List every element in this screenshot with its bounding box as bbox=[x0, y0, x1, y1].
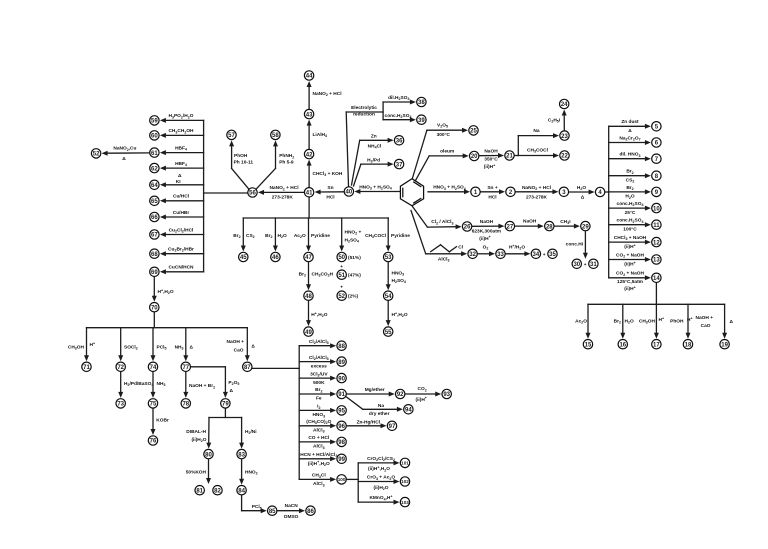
svg-text:CH3COCl: CH3COCl bbox=[365, 233, 386, 239]
svg-text:Fe: Fe bbox=[316, 396, 322, 402]
svg-text:69: 69 bbox=[151, 270, 158, 276]
svg-text:NaNO2 + HCl: NaNO2 + HCl bbox=[522, 185, 551, 191]
svg-text:H2SO4: H2SO4 bbox=[345, 238, 359, 244]
svg-text:CO2 + NaOH: CO2 + NaOH bbox=[616, 271, 645, 277]
svg-text:+: + bbox=[584, 263, 587, 268]
svg-text:CrO3 + Ac2O: CrO3 + Ac2O bbox=[367, 475, 395, 481]
svg-text:DMSO: DMSO bbox=[284, 514, 299, 520]
svg-text:81: 81 bbox=[196, 488, 203, 494]
svg-text:Ph 10-11: Ph 10-11 bbox=[234, 160, 254, 166]
svg-text:87: 87 bbox=[244, 365, 251, 371]
svg-text:C2H5I: C2H5I bbox=[548, 118, 561, 124]
svg-text:20: 20 bbox=[471, 154, 478, 160]
svg-text:35: 35 bbox=[549, 252, 556, 258]
svg-text:H2O: H2O bbox=[577, 185, 586, 191]
svg-text:KMnO4,H+: KMnO4,H+ bbox=[369, 495, 392, 502]
svg-text:52: 52 bbox=[338, 294, 345, 300]
svg-text:300°C: 300°C bbox=[437, 132, 451, 138]
svg-text:23: 23 bbox=[561, 134, 568, 140]
svg-text:47: 47 bbox=[305, 255, 312, 261]
svg-text:500K: 500K bbox=[313, 380, 325, 386]
svg-text:45: 45 bbox=[240, 255, 247, 261]
svg-text:85: 85 bbox=[269, 509, 276, 515]
svg-text:94: 94 bbox=[405, 408, 412, 414]
svg-text:CrO2Cl2/CS2: CrO2Cl2/CS2 bbox=[367, 456, 395, 462]
svg-text:34: 34 bbox=[533, 252, 540, 258]
svg-text:125°C,5atm: 125°C,5atm bbox=[617, 279, 643, 285]
svg-text:95: 95 bbox=[338, 409, 345, 415]
svg-text:(CH3CO)2O: (CH3CO)2O bbox=[306, 419, 331, 425]
svg-text:Cl: Cl bbox=[458, 244, 463, 250]
svg-text:70: 70 bbox=[151, 305, 158, 311]
svg-text:Na2Cr2O7: Na2Cr2O7 bbox=[619, 135, 640, 141]
svg-text:97: 97 bbox=[389, 424, 396, 430]
svg-text:14: 14 bbox=[653, 276, 660, 282]
svg-text:37: 37 bbox=[396, 162, 403, 168]
svg-text:27: 27 bbox=[507, 224, 514, 230]
svg-text:conc.H2SO4: conc.H2SO4 bbox=[617, 218, 644, 224]
svg-text:Zn dust: Zn dust bbox=[621, 119, 639, 125]
svg-text:NaNO2 + HCl: NaNO2 + HCl bbox=[269, 185, 298, 191]
svg-text:38: 38 bbox=[418, 100, 425, 106]
svg-text:89: 89 bbox=[338, 360, 345, 366]
svg-text:Na: Na bbox=[533, 128, 539, 134]
svg-text:KI: KI bbox=[176, 179, 181, 185]
svg-text:21: 21 bbox=[506, 154, 513, 160]
svg-text:44: 44 bbox=[306, 74, 313, 80]
svg-text:19: 19 bbox=[721, 342, 728, 348]
svg-text:61: 61 bbox=[151, 151, 158, 157]
svg-text:HNO3 + H2SO4: HNO3 + H2SO4 bbox=[359, 185, 392, 191]
svg-text:60: 60 bbox=[151, 134, 158, 140]
svg-text:71: 71 bbox=[83, 365, 90, 371]
svg-text:CO + HCl: CO + HCl bbox=[308, 435, 329, 441]
svg-text:103: 103 bbox=[401, 500, 409, 505]
svg-text:Δ: Δ bbox=[178, 173, 182, 179]
svg-text:273-278K: 273-278K bbox=[272, 194, 294, 200]
svg-text:50: 50 bbox=[338, 255, 345, 261]
svg-text:(2%): (2%) bbox=[348, 294, 359, 300]
svg-text:65: 65 bbox=[151, 199, 158, 205]
svg-text:DIBAL-H: DIBAL-H bbox=[186, 429, 206, 435]
svg-text:16: 16 bbox=[619, 342, 626, 348]
svg-text:92: 92 bbox=[397, 392, 404, 398]
svg-text:3Cl2/UV: 3Cl2/UV bbox=[310, 371, 328, 377]
svg-text:Cl2/AlCl3: Cl2/AlCl3 bbox=[309, 339, 329, 345]
svg-text:excess: excess bbox=[311, 364, 327, 369]
svg-text:CHCl3 + NaOH: CHCl3 + NaOH bbox=[614, 235, 647, 241]
svg-text:NaNO2 + HCl: NaNO2 + HCl bbox=[313, 91, 342, 97]
svg-text:H2/Ni: H2/Ni bbox=[245, 429, 257, 435]
svg-text:CaO: CaO bbox=[701, 323, 711, 329]
svg-text:H2O: H2O bbox=[278, 233, 287, 239]
svg-text:80: 80 bbox=[205, 452, 212, 458]
svg-text:41: 41 bbox=[306, 191, 313, 197]
svg-text:Ac2O: Ac2O bbox=[575, 319, 587, 325]
svg-text:HNO3 + H2SO4: HNO3 + H2SO4 bbox=[433, 185, 466, 191]
svg-text:NaOH + Br2: NaOH + Br2 bbox=[189, 383, 215, 389]
svg-text:51: 51 bbox=[338, 273, 345, 279]
svg-text:Pyridine: Pyridine bbox=[311, 233, 330, 239]
svg-text:90: 90 bbox=[338, 376, 345, 382]
svg-text:(51%): (51%) bbox=[348, 255, 361, 261]
svg-text:conc.H2SO4: conc.H2SO4 bbox=[617, 201, 644, 207]
svg-text:48: 48 bbox=[305, 294, 312, 300]
svg-text:93: 93 bbox=[443, 392, 450, 398]
svg-text:H+,H2O: H+,H2O bbox=[158, 288, 174, 295]
svg-text:13: 13 bbox=[653, 258, 660, 264]
svg-text:91: 91 bbox=[338, 392, 345, 398]
svg-text:CH3CO2H: CH3CO2H bbox=[312, 272, 334, 278]
svg-text:31: 31 bbox=[590, 262, 597, 268]
svg-text:H2O: H2O bbox=[625, 319, 634, 325]
svg-text:62: 62 bbox=[151, 166, 158, 172]
svg-text:79: 79 bbox=[222, 402, 229, 408]
svg-text:12: 12 bbox=[653, 240, 660, 246]
svg-text:H+,H2O: H+,H2O bbox=[311, 311, 327, 318]
svg-text:KOBr: KOBr bbox=[156, 417, 169, 423]
svg-text:83: 83 bbox=[238, 452, 245, 458]
svg-text:SOCl2: SOCl2 bbox=[124, 345, 138, 351]
svg-text:25°C: 25°C bbox=[625, 210, 636, 216]
svg-text:+: + bbox=[543, 253, 546, 258]
svg-text:Electrolytic: Electrolytic bbox=[351, 105, 377, 111]
svg-text:76: 76 bbox=[150, 439, 157, 445]
svg-text:28: 28 bbox=[546, 224, 553, 230]
svg-text:74: 74 bbox=[150, 365, 157, 371]
svg-text:H2/Pd: H2/Pd bbox=[367, 157, 380, 163]
svg-text:(ii)H+,H2O: (ii)H+,H2O bbox=[368, 465, 390, 472]
svg-text:CH3OH: CH3OH bbox=[639, 319, 656, 325]
svg-text:33: 33 bbox=[497, 252, 504, 258]
svg-text:+: + bbox=[340, 285, 343, 290]
svg-text:conc.H2SO4: conc.H2SO4 bbox=[385, 113, 412, 119]
svg-text:dry ether: dry ether bbox=[369, 411, 390, 417]
svg-text:36: 36 bbox=[396, 139, 403, 145]
svg-text:78: 78 bbox=[182, 402, 189, 408]
svg-text:56: 56 bbox=[249, 191, 256, 197]
svg-text:73: 73 bbox=[117, 402, 124, 408]
svg-text:H2O: H2O bbox=[625, 194, 634, 200]
svg-text:82: 82 bbox=[214, 488, 221, 494]
svg-text:99: 99 bbox=[338, 457, 345, 463]
svg-text:623K,300atm: 623K,300atm bbox=[472, 228, 501, 234]
svg-text:NaOH: NaOH bbox=[523, 219, 537, 225]
svg-text:273-278K: 273-278K bbox=[526, 194, 548, 200]
svg-text:NH4Cl: NH4Cl bbox=[368, 143, 382, 149]
svg-text:NaCN: NaCN bbox=[285, 503, 299, 509]
svg-text:98: 98 bbox=[338, 440, 345, 446]
svg-text:NaNO2,Cu: NaNO2,Cu bbox=[113, 146, 136, 152]
svg-text:Δ: Δ bbox=[628, 128, 632, 134]
svg-text:72: 72 bbox=[117, 365, 124, 371]
svg-text:conc.HI: conc.HI bbox=[566, 241, 584, 247]
svg-text:58: 58 bbox=[272, 133, 279, 139]
svg-text:66: 66 bbox=[151, 215, 158, 221]
svg-text:10: 10 bbox=[653, 206, 660, 212]
svg-text:HNO2 +: HNO2 + bbox=[345, 230, 362, 236]
svg-text:+: + bbox=[340, 265, 343, 270]
svg-text:75: 75 bbox=[150, 402, 157, 408]
svg-text:100: 100 bbox=[338, 477, 346, 482]
svg-text:CH3Cl: CH3Cl bbox=[312, 473, 326, 479]
svg-text:(47%): (47%) bbox=[348, 273, 361, 279]
svg-text:32: 32 bbox=[469, 252, 476, 258]
svg-text:59: 59 bbox=[151, 119, 158, 125]
svg-text:Cl2 / AlCl3: Cl2 / AlCl3 bbox=[431, 219, 453, 225]
svg-text:(ii)H+,H2O: (ii)H+,H2O bbox=[308, 460, 330, 467]
svg-text:NaOH +: NaOH + bbox=[227, 339, 245, 345]
svg-text:96: 96 bbox=[338, 424, 345, 430]
svg-text:24: 24 bbox=[561, 102, 568, 108]
svg-text:101: 101 bbox=[401, 461, 409, 466]
svg-text:Cu2Br2/HBr: Cu2Br2/HBr bbox=[168, 247, 194, 253]
svg-text:30: 30 bbox=[573, 262, 580, 268]
svg-text:42: 42 bbox=[306, 152, 313, 158]
svg-text:PhOH: PhOH bbox=[670, 319, 684, 325]
svg-text:Δ: Δ bbox=[190, 345, 194, 351]
svg-text:Na: Na bbox=[378, 403, 384, 409]
svg-text:50%KOH: 50%KOH bbox=[186, 469, 207, 475]
svg-text:NaOH: NaOH bbox=[484, 148, 498, 154]
svg-text:Ac2O: Ac2O bbox=[294, 233, 306, 239]
svg-text:HCN + HCl/AlCl3: HCN + HCl/AlCl3 bbox=[300, 452, 337, 458]
svg-text:PhOH: PhOH bbox=[234, 153, 248, 159]
svg-text:Sn +: Sn + bbox=[487, 185, 497, 191]
svg-text:102: 102 bbox=[401, 479, 409, 484]
svg-text:25: 25 bbox=[470, 129, 477, 135]
svg-text:Cu/HCl: Cu/HCl bbox=[173, 194, 189, 200]
svg-text:CuCN/HCN: CuCN/HCN bbox=[168, 265, 194, 271]
svg-text:LiAlH4: LiAlH4 bbox=[313, 132, 328, 138]
svg-text:100°C: 100°C bbox=[623, 226, 637, 232]
svg-text:39: 39 bbox=[418, 118, 425, 124]
svg-text:NaOH: NaOH bbox=[480, 219, 494, 225]
svg-text:CH3COCl: CH3COCl bbox=[527, 148, 548, 154]
svg-text:53: 53 bbox=[385, 255, 392, 261]
svg-text:H+,H2O: H+,H2O bbox=[392, 311, 408, 318]
svg-text:49: 49 bbox=[305, 330, 312, 336]
svg-text:Δ: Δ bbox=[230, 388, 234, 394]
svg-text:Ph 5-9: Ph 5-9 bbox=[279, 160, 294, 166]
svg-text:CH3OH: CH3OH bbox=[68, 345, 85, 351]
svg-text:29: 29 bbox=[582, 224, 589, 230]
svg-text:HCl: HCl bbox=[326, 194, 334, 200]
svg-text:reduction: reduction bbox=[353, 112, 375, 118]
svg-text:18: 18 bbox=[685, 342, 692, 348]
svg-text:Cu2Cl2/HCl: Cu2Cl2/HCl bbox=[169, 227, 194, 233]
svg-text:Δ: Δ bbox=[730, 319, 734, 325]
svg-text:17: 17 bbox=[653, 342, 660, 348]
svg-text:67: 67 bbox=[151, 233, 158, 239]
svg-text:CH3CH2OH: CH3CH2OH bbox=[168, 128, 194, 134]
svg-text:(ii)H2O: (ii)H2O bbox=[373, 485, 388, 491]
svg-text:CHCl3 + KOH: CHCl3 + KOH bbox=[313, 171, 343, 177]
svg-text:dil. HNO3: dil. HNO3 bbox=[620, 152, 641, 158]
svg-text:350°C: 350°C bbox=[484, 157, 498, 163]
svg-text:CH3I: CH3I bbox=[560, 219, 571, 225]
svg-text:Zn: Zn bbox=[371, 133, 377, 139]
svg-text:64: 64 bbox=[151, 183, 158, 189]
svg-text:15: 15 bbox=[585, 342, 592, 348]
svg-text:88: 88 bbox=[338, 344, 345, 350]
svg-text:Cl2/AlCl3: Cl2/AlCl3 bbox=[309, 355, 329, 361]
svg-text:Sn: Sn bbox=[327, 185, 333, 191]
svg-text:H+/H2O: H+/H2O bbox=[509, 244, 525, 251]
svg-text:PhNH2: PhNH2 bbox=[279, 153, 294, 159]
svg-text:NaOH +: NaOH + bbox=[696, 315, 714, 321]
svg-text:CO2 + NaOH: CO2 + NaOH bbox=[616, 252, 645, 258]
svg-text:54: 54 bbox=[385, 294, 392, 300]
svg-text:77: 77 bbox=[182, 365, 189, 371]
svg-text:11: 11 bbox=[653, 223, 660, 229]
svg-text:26: 26 bbox=[464, 225, 471, 231]
svg-text:57: 57 bbox=[228, 133, 235, 139]
svg-text:Mg/ether: Mg/ether bbox=[365, 387, 385, 393]
svg-text:22: 22 bbox=[561, 154, 568, 160]
svg-text:84: 84 bbox=[238, 488, 245, 494]
svg-text:HCl: HCl bbox=[488, 194, 496, 200]
svg-text:55: 55 bbox=[385, 330, 392, 336]
svg-text:86: 86 bbox=[307, 509, 314, 515]
svg-text:46: 46 bbox=[272, 255, 279, 261]
svg-text:68: 68 bbox=[151, 252, 158, 258]
svg-text:Zn-Hg/HCl: Zn-Hg/HCl bbox=[357, 419, 380, 425]
svg-text:52: 52 bbox=[93, 152, 100, 158]
svg-text:H2SO4: H2SO4 bbox=[392, 278, 406, 284]
svg-text:Cu/HBr: Cu/HBr bbox=[173, 210, 190, 216]
svg-text:(ii)H2O: (ii)H2O bbox=[191, 437, 206, 443]
svg-text:43: 43 bbox=[306, 112, 313, 118]
svg-text:Δ: Δ bbox=[251, 344, 255, 350]
svg-text:40: 40 bbox=[346, 190, 353, 196]
svg-text:oleum: oleum bbox=[440, 149, 454, 155]
svg-text:Δ: Δ bbox=[122, 156, 126, 162]
svg-text:CaO: CaO bbox=[234, 347, 244, 353]
svg-text:Δ: Δ bbox=[581, 194, 585, 200]
svg-text:Pyridine: Pyridine bbox=[391, 233, 410, 239]
